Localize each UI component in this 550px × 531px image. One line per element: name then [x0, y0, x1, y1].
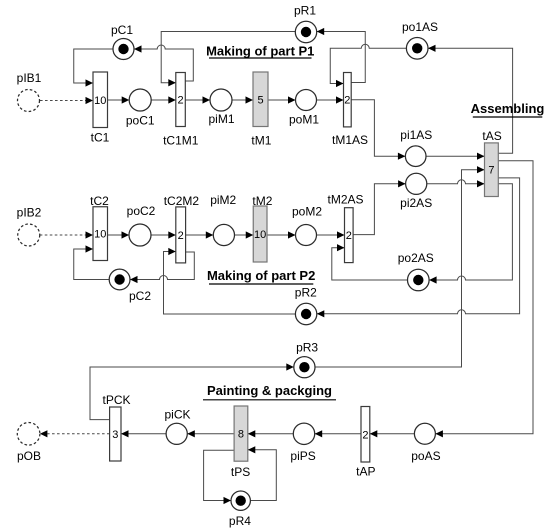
svg-text:tM2: tM2: [252, 194, 272, 208]
svg-text:tAP: tAP: [356, 465, 375, 479]
svg-text:2: 2: [344, 95, 350, 107]
svg-text:tPCK: tPCK: [102, 393, 130, 407]
svg-text:pIB2: pIB2: [17, 205, 42, 219]
svg-text:2: 2: [362, 429, 368, 441]
svg-text:pIB1: pIB1: [17, 71, 42, 85]
svg-text:Painting & packging: Painting & packging: [207, 383, 332, 398]
svg-text:poC2: poC2: [127, 204, 156, 218]
svg-text:5: 5: [257, 94, 263, 106]
svg-text:7: 7: [488, 165, 494, 177]
svg-text:tM1: tM1: [251, 133, 271, 147]
svg-text:po1AS: po1AS: [402, 20, 438, 34]
svg-text:pR2: pR2: [295, 286, 317, 300]
svg-text:poM1: poM1: [289, 113, 319, 127]
svg-text:tM2AS: tM2AS: [327, 193, 363, 207]
svg-text:pi1AS: pi1AS: [400, 128, 432, 142]
svg-text:pC1: pC1: [111, 23, 133, 37]
svg-text:8: 8: [238, 429, 244, 441]
svg-text:pR1: pR1: [294, 4, 316, 18]
svg-text:piCK: piCK: [164, 408, 190, 422]
svg-text:tAS: tAS: [482, 129, 501, 143]
svg-text:tC2M2: tC2M2: [164, 194, 200, 208]
svg-text:po2AS: po2AS: [398, 251, 434, 265]
svg-text:piM1: piM1: [208, 112, 234, 126]
svg-text:pC2: pC2: [129, 289, 151, 303]
svg-text:tC2: tC2: [90, 194, 109, 208]
svg-text:pOB: pOB: [17, 449, 41, 463]
svg-text:tPS: tPS: [231, 465, 250, 479]
svg-text:2: 2: [178, 230, 184, 242]
svg-text:tC1: tC1: [91, 131, 110, 145]
svg-text:poM2: poM2: [292, 205, 322, 219]
svg-text:Making of part P1: Making of part P1: [206, 43, 314, 58]
svg-text:10: 10: [94, 229, 106, 241]
svg-text:Assembling: Assembling: [471, 101, 545, 116]
svg-text:tC1M1: tC1M1: [163, 133, 199, 147]
svg-text:pR3: pR3: [296, 341, 318, 355]
svg-text:piPS: piPS: [290, 449, 315, 463]
svg-text:poAS: poAS: [411, 449, 440, 463]
svg-text:10: 10: [254, 229, 266, 241]
svg-text:2: 2: [346, 230, 352, 242]
svg-text:2: 2: [177, 95, 183, 107]
svg-text:3: 3: [112, 429, 118, 441]
svg-text:tM1AS: tM1AS: [332, 133, 368, 147]
svg-text:piM2: piM2: [210, 193, 236, 207]
svg-text:poC1: poC1: [126, 114, 155, 128]
svg-text:10: 10: [94, 95, 106, 107]
svg-text:pi2AS: pi2AS: [400, 196, 432, 210]
svg-text:pR4: pR4: [229, 514, 251, 528]
svg-text:Making of part P2: Making of part P2: [207, 268, 315, 283]
